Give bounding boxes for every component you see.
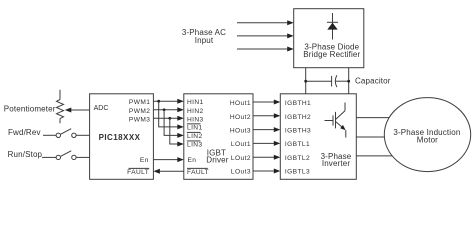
svg-text:PIC18XXX: PIC18XXX: [99, 133, 141, 142]
svg-text:IGBTH2: IGBTH2: [285, 114, 311, 121]
wire AC phase 3 into rectifier: [237, 47, 294, 52]
svg-text:Bridge Rectifier: Bridge Rectifier: [303, 50, 360, 59]
wire PWM1 to HIN1 with arrow: [153, 99, 183, 104]
svg-text:PWM1: PWM1: [129, 99, 150, 106]
wire AC phase 2 into rectifier: [237, 33, 294, 38]
wire PWM3 branch to LIN3 with arrow: [170, 118, 184, 146]
svg-text:HIN2: HIN2: [187, 108, 204, 115]
svg-text:IGBTH3: IGBTH3: [285, 128, 311, 135]
svg-text:FAULT: FAULT: [187, 169, 209, 176]
wire PWM2 branch to LIN2 with arrow: [164, 110, 184, 138]
wire HOut1 to IGBTH1 with arrow: [253, 100, 280, 105]
svg-text:LIN3: LIN3: [187, 142, 203, 149]
label 3-Phase AC Input: [182, 28, 226, 45]
potentiometer R1 symbol: [57, 90, 64, 123]
wire DC bus left (rectifier to inverter): [305, 68, 307, 94]
svg-text:Fwd/Rev: Fwd/Rev: [8, 128, 41, 137]
switch SW2 Run/Stop: [42, 151, 90, 160]
svg-text:LIN2: LIN2: [187, 133, 203, 140]
capacitor C1 across DC bus: [306, 75, 349, 87]
svg-text:LIN1: LIN1: [187, 124, 203, 131]
junction dot PWM3: [168, 117, 171, 120]
svg-text:Inverter: Inverter: [322, 159, 351, 168]
wire HOut2 to IGBTH2 with arrow: [253, 113, 280, 118]
wire FAULT driver to PIC with arrow: [153, 169, 183, 174]
wire inverter phase A to motor: [356, 117, 389, 119]
svg-text:HIN1: HIN1: [187, 99, 204, 106]
svg-text:Capacitor: Capacitor: [355, 76, 391, 85]
svg-text:HIN3: HIN3: [187, 116, 204, 123]
wire PWM2 to HIN2 with arrow: [153, 107, 183, 112]
junction dot PWM1: [157, 100, 160, 103]
junction dot right of capacitor: [347, 80, 350, 83]
svg-text:Input: Input: [195, 36, 214, 45]
block U2 IGBT Driver: [184, 94, 253, 180]
svg-text:LOut1: LOut1: [231, 141, 251, 148]
wire LOut3 to IGBTL3 with arrow: [253, 169, 280, 174]
junction dot PWM2: [163, 108, 166, 111]
svg-text:Driver: Driver: [206, 155, 228, 164]
svg-text:Run/Stop: Run/Stop: [8, 150, 43, 159]
block U1 PIC18XXX microcontroller: [90, 94, 154, 180]
svg-text:IGBTL2: IGBTL2: [285, 155, 310, 162]
wire inverter phase C to motor: [356, 155, 392, 157]
diode symbol inside rectifier: [327, 13, 338, 40]
wire AC phase 1 into rectifier: [237, 20, 294, 25]
svg-text:En: En: [188, 157, 197, 164]
svg-text:PWM3: PWM3: [129, 116, 150, 123]
svg-text:IGBTH1: IGBTH1: [285, 100, 311, 107]
transistor IGBT symbol inside inverter: [325, 103, 346, 138]
wire DC bus right (rectifier to inverter): [348, 68, 350, 94]
wire En PIC to driver with arrow: [153, 157, 183, 162]
wire inverter phase B to motor: [356, 136, 384, 138]
wire HOut3 to IGBTH3 with arrow: [253, 127, 280, 132]
block 3-Phase Diode Bridge Rectifier: [294, 9, 364, 68]
svg-text:LOut3: LOut3: [231, 169, 251, 176]
switch SW1 Fwd/Rev: [43, 129, 90, 138]
svg-text:HOut1: HOut1: [230, 100, 251, 107]
junction dot left of capacitor: [304, 80, 307, 83]
wire PWM1 branch to LIN1 with arrow: [159, 101, 184, 129]
svg-text:En: En: [140, 157, 149, 164]
svg-text:Potentiometer: Potentiometer: [4, 105, 56, 114]
wire LOut2 to IGBTL2 with arrow: [253, 155, 280, 160]
block 3-Phase Inverter: [280, 94, 356, 180]
motor M1 3-Phase Induction Motor: [384, 98, 470, 172]
wire potentiometer wiper to ADC with arrow: [65, 108, 90, 113]
svg-text:IGBTL3: IGBTL3: [285, 169, 310, 176]
wire LOut1 to IGBTL1 with arrow: [253, 141, 280, 146]
svg-text:PWM2: PWM2: [129, 108, 150, 115]
wire PWM3 to HIN3 with arrow: [153, 116, 183, 121]
svg-text:HOut2: HOut2: [230, 114, 251, 121]
svg-text:IGBTL1: IGBTL1: [285, 141, 310, 148]
svg-text:HOut3: HOut3: [230, 128, 251, 135]
svg-text:Motor: Motor: [417, 135, 438, 144]
svg-text:LOut2: LOut2: [231, 155, 251, 162]
svg-text:FAULT: FAULT: [127, 169, 149, 176]
svg-text:ADC: ADC: [94, 105, 109, 112]
